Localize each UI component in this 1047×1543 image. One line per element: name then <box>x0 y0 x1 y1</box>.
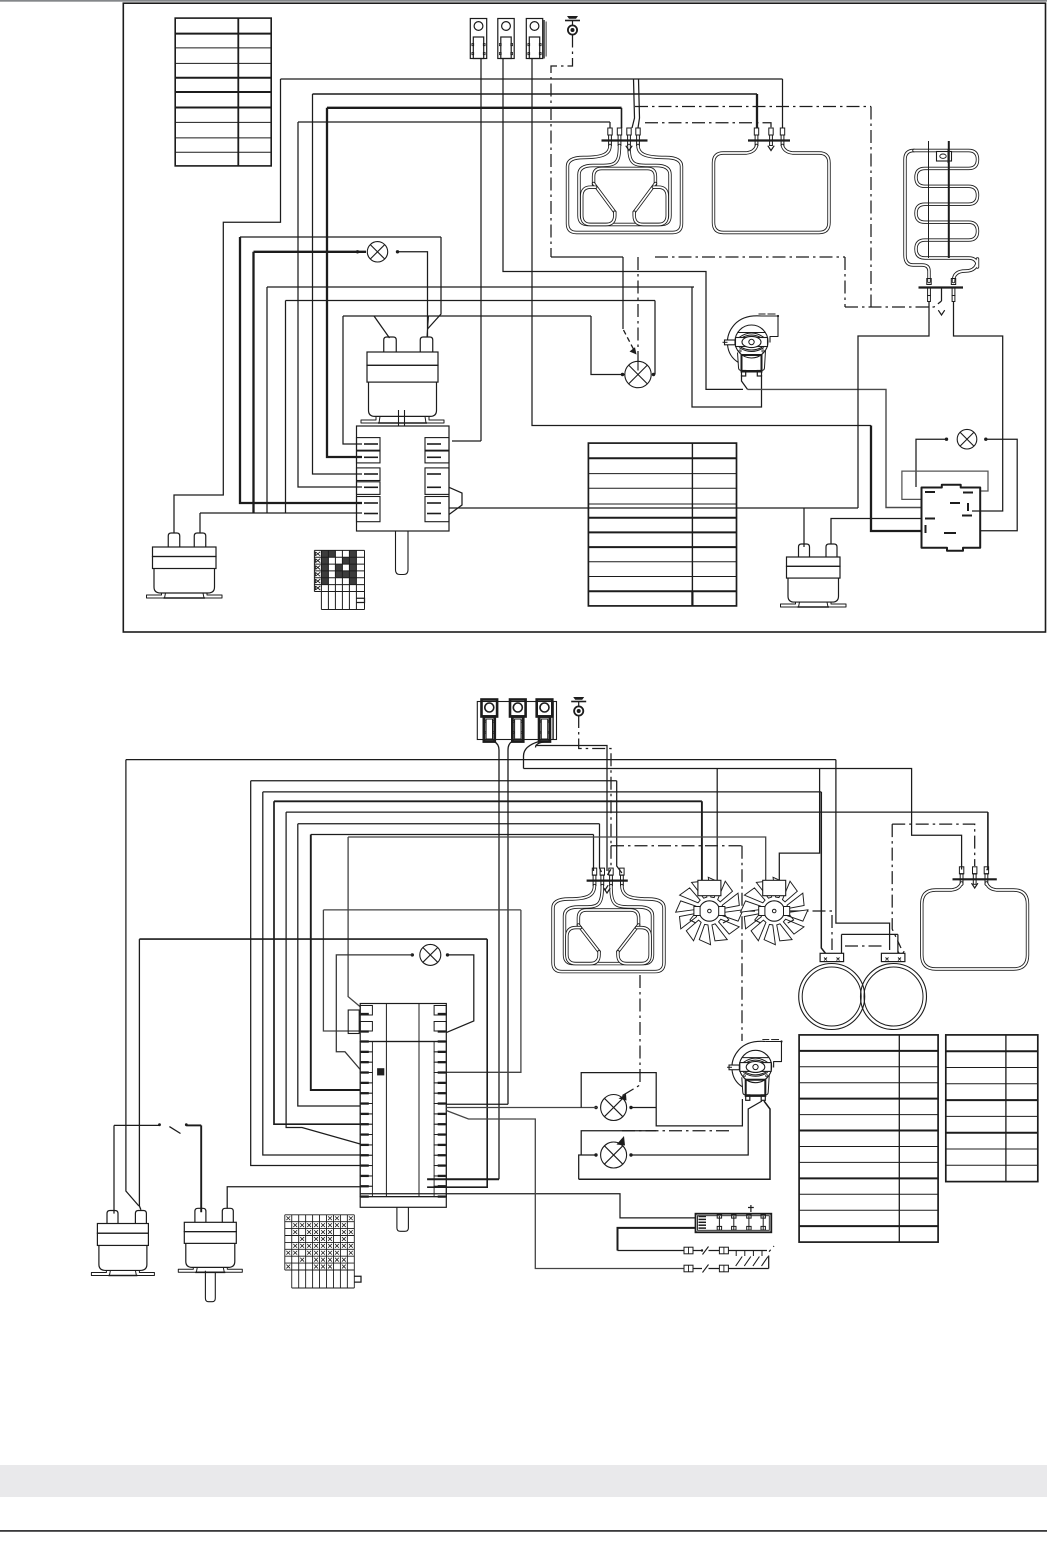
bundle vertical 250.7 <box>251 781 361 1166</box>
wire selector to strip west <box>360 1193 446 1195</box>
ground PE2 dash-dot <box>579 715 611 846</box>
selector switch S1 body <box>357 426 450 531</box>
wire selector left pin y=513 <box>200 512 362 514</box>
hot plate E5 <box>799 964 865 1030</box>
strip X3 cells <box>718 1216 720 1231</box>
selector S2 body <box>360 1042 446 1197</box>
thermostat K2 <box>168 533 180 547</box>
grill2 pin2 feed <box>600 824 602 872</box>
wire loop y=909.9 <box>323 909 521 911</box>
fan motor M4 <box>732 1041 765 1087</box>
selector S1 right terminal boxes <box>425 438 449 451</box>
lamp H1 left lead down <box>252 252 254 513</box>
switch S3 K1b-left drop <box>113 1125 115 1213</box>
thermostat K1b <box>107 1211 118 1224</box>
lamp H6 right lead to fan M4 <box>631 1101 762 1155</box>
terminal block X1 <box>470 19 486 59</box>
selector S2 bottom flange <box>360 1197 446 1208</box>
wire bus y=301 <box>286 300 656 302</box>
bus y=939.1 heavy <box>139 938 487 940</box>
ground to grill2 mid pin <box>608 846 612 875</box>
fan motor M1 <box>727 316 761 363</box>
hot plate E6 <box>861 964 927 1030</box>
table T3 <box>799 1035 938 1242</box>
lamp H6 left lead <box>579 1155 596 1179</box>
relay frame loop <box>902 471 988 499</box>
bake element E7 <box>953 878 997 880</box>
grill pin risers to bus <box>632 79 635 128</box>
bundle vertical 286.1 diag <box>286 812 360 1144</box>
X2 wire drops <box>494 742 499 1180</box>
bus y=747 solid to grill2 pin3 <box>536 746 608 872</box>
thermostat right terminal lead <box>427 316 429 337</box>
serpentine terminal bar <box>919 286 964 288</box>
selector S2 flange ticks <box>361 1013 369 1015</box>
selector diag to gray drop <box>446 1111 684 1269</box>
row2 dashdot hook <box>769 1246 774 1269</box>
thermostat K1 <box>384 337 397 352</box>
bus T3 y=768.5 to bake2 <box>524 769 962 870</box>
grill2 pin4 feed <box>617 781 622 873</box>
wire y=508 selector to K3 <box>449 507 858 509</box>
selector S1 pins <box>364 443 378 445</box>
grill element E1 <box>602 139 648 141</box>
selector S1 right V link <box>449 487 462 514</box>
relay K4 body <box>922 485 981 551</box>
ground dash-dot from PE1 <box>551 35 573 258</box>
strip X3 heavy feed <box>618 1228 696 1251</box>
wire K3 left lead <box>803 508 805 547</box>
grill2 pin1 feed <box>593 835 595 872</box>
cam chart C2 comb <box>291 1270 293 1288</box>
heavy loop selector to fan M4 <box>579 1101 770 1179</box>
lamp H5 left lead <box>446 1107 598 1109</box>
thermal switch near lamp H2 <box>622 257 624 329</box>
wire bus y=94 <box>313 93 758 95</box>
serpentine support rods <box>928 141 930 258</box>
lamp H4 left lead <box>336 955 412 1070</box>
ground dashdot y=123 to bake <box>645 123 771 128</box>
fan M2 left feed <box>701 801 703 887</box>
ground dashdot y=257 segment right <box>655 256 845 258</box>
cam switch chart C1 <box>321 550 328 557</box>
lamp H6 loop <box>581 1131 656 1155</box>
page top edge band <box>0 0 1047 2</box>
lamp H3 left lead <box>916 439 947 487</box>
pilot lamp H3 <box>957 429 977 449</box>
lamp H2 dash-dot feed <box>637 257 639 362</box>
thermostat K2b <box>195 1208 206 1222</box>
lamp H2 right lead <box>654 301 656 375</box>
bake feeds <box>756 94 758 128</box>
fuse row 2 <box>683 1268 685 1270</box>
K1b feed vertical x=126 <box>126 760 139 1206</box>
bus y=812.1 <box>286 811 988 813</box>
plate E5 bracket <box>820 953 844 961</box>
ground dashdot y=307 <box>845 301 942 307</box>
bundle vertical 348.1 diag <box>348 837 360 1007</box>
grill element E4 <box>587 879 628 881</box>
cam chart C2 tab <box>354 1276 361 1282</box>
ground bus to bake2 mid <box>892 824 975 866</box>
plate chain wire <box>842 933 898 935</box>
fan M1 left supply <box>692 287 762 407</box>
wire serpentine left to junction <box>858 302 929 509</box>
serpentine fuse box <box>937 152 952 162</box>
bottom rule line <box>0 1530 1047 1532</box>
bottom gray band <box>0 1465 1047 1497</box>
bundle vertical 310.8 heavy <box>311 835 360 1091</box>
selector S2 terminal boxes <box>360 1042 372 1052</box>
bundle vertical 297.8 <box>298 824 360 1106</box>
ground bus y=257 to lamp region <box>551 256 623 258</box>
switch S3 line <box>114 1124 160 1126</box>
ground dashdot y=106.5 <box>635 106 871 108</box>
oven lamp H4 <box>420 944 441 965</box>
bus y=780.7 <box>251 780 617 782</box>
lamp H2 left lead <box>591 316 625 375</box>
lamp H5 loop <box>581 1073 742 1126</box>
wire bus y=287 <box>267 286 694 288</box>
ground symbol PE1 <box>565 20 580 22</box>
fan M3 radial <box>787 907 808 922</box>
bus 812 drop bake2 right <box>986 812 988 869</box>
program table T2 <box>588 443 736 606</box>
bus y=837 fan2 feed <box>348 837 766 888</box>
fan M1 wire to relay <box>748 389 922 507</box>
bus y=801.3 heavy <box>274 800 702 802</box>
ground drop between fans <box>741 846 743 1041</box>
bake element E2 <box>748 139 790 141</box>
fan M1 right supply diag <box>742 375 748 389</box>
bundle vertical 262.8 <box>263 792 360 1155</box>
wire bus y=122 drop <box>298 122 362 487</box>
grill2 ground arrow <box>604 888 610 893</box>
terminal X1 wire drops <box>480 59 482 442</box>
cam chart C2 <box>284 1215 286 1270</box>
table T4 <box>946 1035 1038 1182</box>
fan M2 right feed drop <box>716 769 718 888</box>
selector S1 left terminal boxes <box>357 438 381 451</box>
lamp H5 <box>601 1095 627 1121</box>
thermostat K3 <box>799 544 810 557</box>
selector S2 black mark <box>377 1068 384 1075</box>
oven lamp H1 <box>254 251 367 253</box>
ground symbol PE2 <box>571 701 586 703</box>
wire serpentine right to relay <box>954 302 1003 512</box>
left bundle bus y=759.6 <box>126 759 836 761</box>
fan M2 radial <box>722 907 743 922</box>
wire K3 right to relay <box>831 519 922 544</box>
strip X3 left striped block <box>699 1216 707 1218</box>
bus y=834.5 <box>311 834 594 836</box>
lamp H4 right lead <box>446 955 474 1033</box>
wire x=441 to thermostat terminal <box>428 237 442 329</box>
selector S2 stem <box>397 1207 409 1231</box>
wire bus y=108 drop to selector <box>327 108 362 457</box>
selector switch S2 top flange <box>360 1004 446 1042</box>
switch S3 K2b-left drop heavy <box>200 1125 202 1212</box>
lamp H6 <box>601 1142 627 1168</box>
serpentine element E3 <box>905 151 929 282</box>
lamp H1 right lead to thermostat <box>398 252 428 337</box>
plate E6 bracket <box>881 953 905 961</box>
wire bus y=108 heavy <box>327 107 622 109</box>
ground between plates <box>845 945 882 947</box>
cam chart C1 lower comb <box>320 592 322 610</box>
wire bus y=316 thermostat feed <box>343 315 591 317</box>
wire terminal3 to relay <box>532 59 871 426</box>
grill ground arrow <box>626 146 632 151</box>
ground to plate1 <box>742 911 832 950</box>
wire K2b-right to selector <box>227 1187 360 1209</box>
bundle vertical 274 heavy <box>274 801 360 1124</box>
relay K4 pins <box>925 491 935 493</box>
wire L1 bus y=79 <box>281 78 783 80</box>
bus 791.9 drop to plate1-left <box>821 792 826 954</box>
diagram 1 border frame <box>123 3 1045 632</box>
bus y=791.9 <box>263 791 822 793</box>
terminal block X2 <box>477 702 556 740</box>
ground drop to lamps H5 <box>620 975 640 1097</box>
legend table T1 <box>175 18 271 166</box>
wire bus y=94 drop <box>313 94 363 474</box>
thermostat terminal diagonals <box>374 316 390 338</box>
ground to plate2 <box>892 824 901 948</box>
browning lamp H2 <box>625 361 651 387</box>
K2b stem <box>205 1271 215 1302</box>
bus y=823.8 <box>298 823 600 825</box>
terminal strip X3 <box>696 1214 772 1233</box>
thermostat K1 shaft <box>398 410 400 426</box>
lamp H3 right lead <box>981 439 1018 531</box>
fan M3 right feed from T3 bus <box>779 769 819 888</box>
strip X3 dagger <box>748 1205 754 1212</box>
bus 759 drop to plate2-left <box>836 760 890 950</box>
serpentine ground mid <box>941 288 943 302</box>
lamp H5 right lead <box>631 1107 656 1109</box>
cam chart C1 tab <box>356 598 364 602</box>
selector S1 stem <box>396 531 409 575</box>
fuse row 1 switch hooks <box>735 1251 737 1257</box>
lamp H6 ground dashdot <box>622 1130 729 1132</box>
ground bus y=845.8 <box>611 845 742 847</box>
lamp H1 loop wire y=237 <box>240 236 441 238</box>
wire L1 drop to selector feed <box>174 79 281 533</box>
wire bus y=122 <box>298 121 610 123</box>
fuse row 1 <box>618 1250 685 1252</box>
